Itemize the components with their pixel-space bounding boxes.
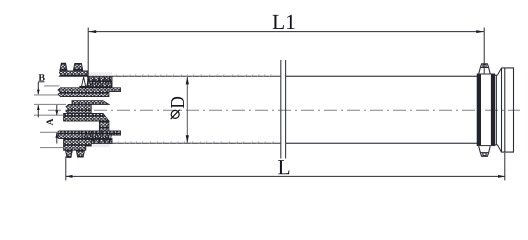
dimension L1: [88, 10, 484, 76]
clamp bottom lug: [479, 146, 491, 156]
hose-to-tube junction collar: [281, 60, 286, 159]
bore upper wall: [72, 101, 109, 105]
svg-text:L1: L1: [272, 10, 296, 34]
rigid tube lower wall: [286, 142, 477, 144]
faint collar band top: [88, 72, 112, 76]
faint collar band bottom: [87, 144, 110, 147]
svg-text:D: D: [167, 96, 189, 109]
braid band top: [80, 76, 112, 89]
braid band bottom: [91, 139, 112, 144]
clamp body: [477, 74, 495, 146]
hose upper wall: [88, 75, 281, 77]
hose lower wall: [88, 142, 281, 144]
ferrule neck: [495, 68, 502, 152]
bottom hump 2: [76, 150, 84, 157]
flange disc: [502, 68, 514, 152]
rib fin 2: [58, 88, 121, 97]
stem center block: [66, 104, 91, 113]
dimension diameter D: [167, 77, 189, 144]
stem tail: [99, 121, 109, 131]
top hump 1: [60, 63, 67, 71]
top hump 2: [73, 64, 83, 71]
fitting step lines protruding left: [34, 86, 66, 148]
hose wall ticks: [89, 74, 274, 143]
clamp top lug: [479, 64, 491, 74]
dimension L: [66, 153, 505, 181]
bore lower wall: [64, 113, 109, 121]
left fitting: hatched body: [57, 63, 121, 157]
dimension A: [46, 105, 58, 144]
svg-text:A: A: [46, 118, 56, 125]
rib fin 1: [59, 71, 87, 76]
rib fin 4: [57, 131, 121, 139]
bottom hump 1: [66, 150, 73, 157]
svg-text:L: L: [277, 155, 290, 179]
rigid tube upper wall: [286, 75, 477, 77]
centerline (axis): [48, 109, 520, 111]
rib fin 5: [64, 139, 92, 151]
dimension B: [37, 73, 46, 118]
